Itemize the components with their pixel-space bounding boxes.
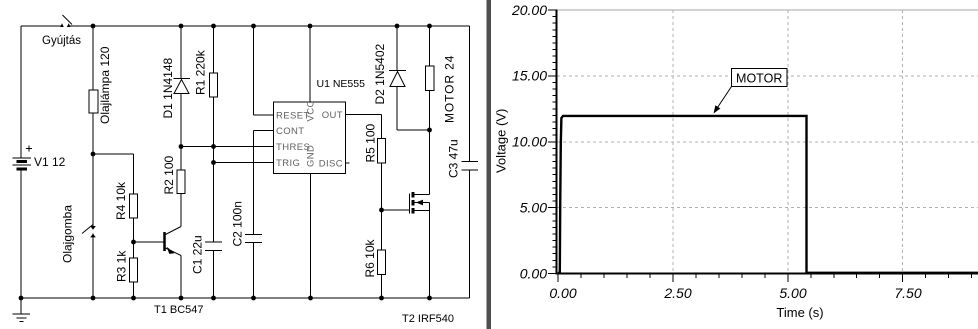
svg-text:R2 100: R2 100 [162,155,176,194]
svg-text:D1 1N4148: D1 1N4148 [161,57,175,118]
resistor R2 100 [162,147,185,195]
ground [13,298,31,322]
svg-text:Gyújtás: Gyújtás [42,35,81,47]
chart axis title Voltage [494,109,509,173]
chart x-axis labels [549,285,921,301]
transistor T2 MOSFET [402,192,454,325]
wire gate of T2 [382,209,410,211]
switch Gyújtás [42,15,81,47]
chart x-axis minor ticks [581,274,972,278]
wire top rail right segment [69,25,470,27]
diode D2 1N5402 [373,26,430,130]
chart waveform MOTOR trace [558,116,978,273]
wire RESET to VCC rail [254,26,274,115]
svg-text:Olajgomba: Olajgomba [61,205,75,263]
diode D1 1N4148 [161,26,190,147]
motor MOTOR 24 [426,26,457,195]
divider bar [487,0,492,329]
svg-text:T1 BC547: T1 BC547 [154,304,204,316]
svg-text:C1 22u: C1 22u [191,235,205,274]
svg-text:C3 47u: C3 47u [447,139,461,178]
svg-text:CONT: CONT [276,126,305,137]
chart x-axis major ticks [558,274,903,282]
svg-text:V1 12: V1 12 [34,155,66,169]
svg-text:TRIG: TRIG [276,158,300,169]
svg-text:5.00: 5.00 [520,199,547,215]
svg-text:7.50: 7.50 [894,285,921,301]
chart vertical gridlines [673,10,903,274]
chart y-axis minor ticks [553,17,557,267]
svg-text:MOTOR: MOTOR [736,71,782,85]
resistor R6 10k [363,210,386,298]
svg-text:R6 10k: R6 10k [363,238,377,277]
wire TRIG row [214,162,274,164]
svg-text:2.50: 2.50 [663,285,691,301]
svg-text:10.00: 10.00 [512,134,547,150]
resistor R3 1k [115,242,138,298]
svg-text:Voltage (V): Voltage (V) [494,109,509,173]
svg-text:15.00: 15.00 [512,68,547,84]
chart y-axis major ticks [548,10,557,274]
wire GND pin [310,174,312,299]
transistor T1 [154,194,204,317]
svg-text:R5 100: R5 100 [364,123,378,162]
resistor R1 220k [194,26,218,242]
svg-text:U1 NE555: U1 NE555 [317,78,366,90]
chart horizontal gridlines [557,76,978,208]
chart y-axis [556,10,558,275]
svg-text:R3 1k: R3 1k [115,250,129,282]
switch Olajgomba [61,205,96,298]
svg-text:0.00: 0.00 [520,265,547,281]
capacitor C3 47u [447,26,479,298]
svg-text:OUT: OUT [322,110,343,121]
svg-text:T2 IRF540: T2 IRF540 [402,313,454,325]
svg-text:GND: GND [306,145,317,167]
svg-text:5.00: 5.00 [779,285,806,301]
chart MOTOR callout [714,69,788,114]
chart y-axis labels [511,2,547,282]
wire OUT to R5 [346,115,382,139]
svg-text:VCC: VCC [306,100,317,121]
svg-text:R4 10k: R4 10k [114,181,128,220]
wire CONT column [254,131,274,235]
op-amp U1 NE555 box [274,78,366,174]
capacitor C1 22u [191,235,223,298]
battery V1 [13,26,66,298]
chart axis title Time [776,305,823,320]
resistor R5 100 [364,123,386,210]
svg-text:R1 220k: R1 220k [194,49,208,95]
svg-text:DISC: DISC [319,159,343,170]
capacitor C2 100n [231,201,263,298]
svg-text:Time (s): Time (s) [776,305,823,320]
svg-text:MOTOR 24: MOTOR 24 [443,55,457,123]
resistor Olajlámpa 120 [89,26,112,227]
svg-text:D2 1N5402: D2 1N5402 [373,43,387,104]
svg-text:20.00: 20.00 [511,2,547,18]
wire top rail left segment [21,25,62,27]
svg-text:C2 100n: C2 100n [231,201,245,246]
resistor R4 10k [114,181,138,242]
wire node A (junction to R4) [93,154,134,194]
svg-text:Olajlámpa 120: Olajlámpa 120 [98,46,112,124]
pin DISC stub [346,162,350,164]
wire bottom rail [21,297,470,299]
wire VCC pin [309,26,311,102]
chart plot area top border [557,9,978,11]
wire THRES row [181,146,274,148]
wire base of T1 [134,241,165,243]
chart x-axis [557,273,978,275]
svg-text:0.00: 0.00 [549,285,576,301]
